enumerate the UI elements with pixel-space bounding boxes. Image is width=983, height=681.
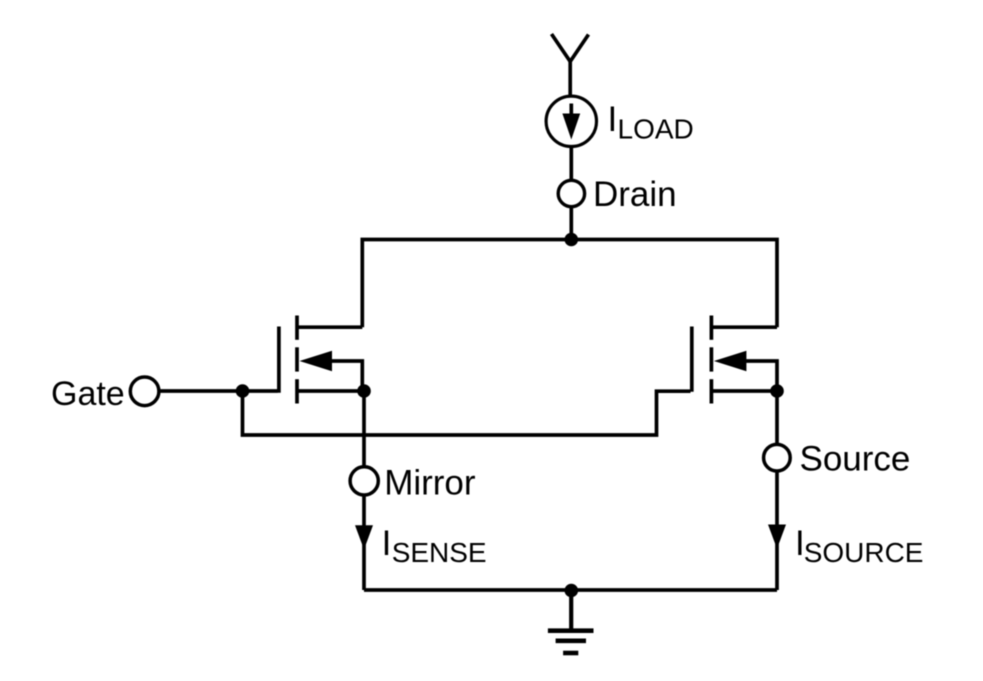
wire: bottom rail [364,588,777,592]
svg-text:Source: Source [800,440,911,479]
transistor Q2 (right, main FET) [692,316,784,404]
current arrow ISOURCE [768,525,786,549]
node: top rail junction [565,233,579,247]
Q2 drain stub [711,325,777,329]
wire: source lead lower [775,471,779,590]
Q2 source stub [711,389,777,393]
node: Q2 source junction [770,384,784,398]
Q1 body arrow [300,351,333,372]
wire: gate [159,389,278,393]
svg-text:Mirror: Mirror [384,464,476,503]
transistor Q1 (left, sense FET) [279,316,371,404]
node: gate junction [236,384,250,398]
label ISOURCE [795,524,923,568]
node: bottom rail junction [565,584,579,598]
wire: mirror lead lower [362,495,366,590]
supply terminal Y [552,34,589,97]
Q1 drain stub [297,325,362,329]
current source ILOAD [546,96,596,146]
svg-text:Drain: Drain [593,175,677,214]
label ISENSE [382,524,487,568]
Q2 body arrow [714,351,747,372]
svg-text:SENSE: SENSE [392,537,487,568]
terminal Drain [558,180,584,206]
wire: mirror lead upper [362,391,366,467]
wire: source lead upper [775,391,779,445]
svg-text:Gate: Gate [51,375,125,413]
terminal Mirror [350,467,378,495]
svg-text:I: I [382,524,392,563]
Q2 channel dashes [710,316,714,340]
label ILOAD [608,100,694,145]
ground [548,591,594,654]
wire: gate cross-connection [243,391,691,435]
Q1 gate bar [277,327,281,393]
svg-text:LOAD: LOAD [618,114,694,145]
Q1 source stub [297,389,364,393]
Q2 gate bar [690,327,694,392]
current arrow ISENSE [355,525,373,549]
svg-text:SOURCE: SOURCE [804,537,924,568]
terminal Gate [130,377,159,406]
wire: current source to Drain terminal [569,147,573,181]
svg-text:I: I [608,100,618,139]
terminal Source [764,444,791,471]
Q1 channel dashes [295,316,299,340]
node: Q1 source junction [357,384,371,398]
wire: top rail [362,240,777,328]
wire: Drain terminal to top rail [569,207,573,240]
